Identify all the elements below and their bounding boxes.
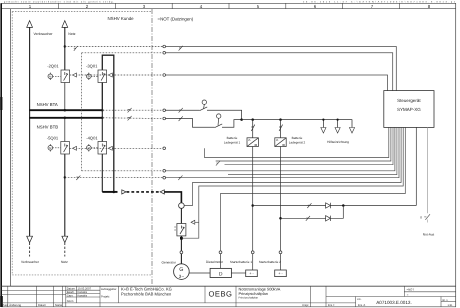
op unit Steuergeraet SYMAP box	[384, 91, 434, 128]
wire -2Q01 to busbar BTA	[64, 83, 66, 111]
motor drive M -5Q01	[48, 144, 61, 151]
svg-text:Starterbatterie 1: Starterbatterie 1	[230, 260, 252, 264]
wire generator to diesel	[189, 272, 210, 274]
charger 1 box AC/DC	[247, 138, 258, 147]
arrow hilfs2	[335, 128, 340, 134]
motor Dieselmotor box	[210, 268, 231, 277]
svg-text:NSHV BTA: NSHV BTA	[37, 102, 58, 107]
svg-text:NSHV BTB: NSHV BTB	[37, 125, 59, 130]
svg-text:Ladegerät 2: Ladegerät 2	[289, 141, 306, 145]
svg-text:Kanakis: Kanakis	[78, 294, 88, 297]
svg-text:3~: 3~	[179, 274, 185, 279]
node hilfs2	[337, 119, 339, 121]
wire -4Q01 column	[101, 110, 103, 192]
svg-text:Starterbatterie 2: Starterbatterie 2	[259, 260, 281, 264]
bundle wire L4 from terminal y170.8	[166, 127, 395, 170]
motor drive M -3Q01	[87, 73, 99, 80]
fuse mark charger2	[279, 125, 283, 131]
svg-text:Name: Name	[55, 304, 63, 307]
bundle wire L5	[228, 127, 397, 174]
svg-text:Zust.: Zust.	[2, 304, 8, 307]
column header ticks	[59, 3, 400, 8]
svg-text:Änderung: Änderung	[9, 303, 21, 307]
breaker -4Q01	[98, 142, 107, 155]
svg-text:Netz: Netz	[61, 260, 68, 264]
svg-text:Hilfseinrichtung: Hilfseinrichtung	[327, 140, 349, 144]
bundle wire L9 to diesel	[221, 127, 406, 250]
wire charger2 to battery2	[280, 147, 282, 251]
diode D2	[326, 216, 331, 221]
node changeover junction	[240, 118, 243, 121]
arrow NOT feed left	[160, 190, 164, 194]
wire dashed row y117.8 BTB link	[103, 117, 163, 120]
wire dashed stub below Verbraucher arrow	[29, 243, 31, 257]
svg-text:A071003.E.0013.: A071003.E.0013.	[376, 300, 412, 305]
contact mark L6	[178, 175, 182, 180]
wire battery1 sense row y205.5	[253, 205, 417, 207]
charger 2 box AC/DC	[275, 138, 286, 147]
busbar NSHV BTB	[29, 117, 103, 119]
arrow trip -5Q01	[73, 146, 77, 150]
contact mark line A	[179, 108, 183, 113]
arrow hilfs1	[321, 128, 326, 134]
node BTB-5Q01	[64, 117, 67, 120]
wire Verbraucher vertical	[29, 27, 31, 236]
arrow trip -2Q01	[73, 73, 77, 77]
node diode merge	[342, 204, 345, 207]
svg-text:Netz: Netz	[68, 32, 75, 36]
arrow trip -4Q01	[108, 146, 112, 150]
switch blade B	[215, 124, 223, 128]
wire row y75 to Steuergeraet	[166, 75, 388, 91]
bundle wire L8 to generator sense	[181, 127, 403, 238]
wire diesel stub	[220, 254, 222, 269]
arrow NOT feed right	[122, 190, 126, 194]
NSHV Kunde dashed enclosure	[12, 12, 152, 275]
generator G 3~	[174, 264, 190, 280]
motor drive M -4Q01	[87, 144, 99, 151]
svg-text:Auftraggeber: Auftraggeber	[101, 288, 117, 291]
svg-text:Verbraucher: Verbraucher	[34, 32, 54, 36]
wire charger2 drop upper	[280, 120, 282, 138]
svg-text:D: D	[219, 272, 223, 278]
node BTA-Netz	[64, 109, 67, 112]
area separator NSHV/NOT	[151, 9, 153, 286]
wire trip branch	[195, 221, 199, 223]
wire NOT feed to generator column	[164, 192, 181, 203]
wire Not-Aus line	[427, 127, 429, 213]
arrow feeder Verbraucher top	[27, 21, 33, 28]
svg-text:Prinzipschaltplan: Prinzipschaltplan	[239, 291, 268, 296]
bottom row labels	[2, 303, 366, 307]
svg-text:Zch.: Zch.	[357, 298, 362, 301]
breaker -5Q01	[61, 142, 70, 155]
svg-text:gemacht sowie Zuwiderhandler s: gemacht sowie Zuwiderhandler sind mit al…	[4, 0, 114, 3]
wire diesel to battery1	[231, 272, 245, 274]
node BTB-4Q01	[101, 117, 104, 120]
arrow Netz bottom	[62, 236, 68, 242]
wire charger1 drop upper	[252, 120, 254, 138]
switch blade A	[200, 107, 208, 111]
arrow trip generator breaker	[191, 220, 195, 224]
breaker generator -Q	[174, 224, 186, 236]
actuator B	[217, 114, 221, 126]
node BTA-3Q01	[101, 109, 104, 112]
current transformer generator	[179, 203, 185, 209]
breaker -2Q01	[61, 70, 70, 83]
svg-text:NSHV Kunde: NSHV Kunde	[108, 16, 135, 21]
contact mark line B	[179, 116, 183, 121]
bus NOT distribution y119.6	[242, 119, 353, 121]
svg-text:Datum: Datum	[38, 304, 47, 307]
svg-text:OEBG: OEBG	[209, 290, 233, 299]
wire battery2 stub	[280, 254, 282, 270]
node hilfs1	[322, 119, 324, 121]
svg-text:=NOT: =NOT	[407, 288, 415, 292]
svg-text:Pschornhöfe BAB München: Pschornhöfe BAB München	[121, 291, 172, 296]
changeover feed line A	[166, 110, 242, 119]
node battery1 sense	[251, 204, 254, 207]
node charger2 tap	[279, 118, 282, 121]
Hilfseinrichtung stubs	[323, 120, 352, 128]
terminal circle diesel	[219, 251, 222, 254]
motor drive M -2Q01	[48, 73, 61, 80]
pushbutton Not-Aus	[424, 214, 430, 222]
bundle wire L3	[225, 127, 394, 164]
wire dashed control riser x81.6	[81, 53, 83, 171]
node charger1 tap	[251, 118, 254, 121]
svg-text:Ladegerät 1: Ladegerät 1	[224, 141, 241, 145]
contact mark sense row 2	[306, 216, 310, 221]
svg-text:1 Bl.: 1 Bl.	[448, 304, 453, 307]
fuse mark charger1	[251, 125, 255, 131]
wire charger1 to battery1	[252, 147, 254, 251]
breaker -3Q01	[98, 70, 107, 83]
svg-text:Verbraucher: Verbraucher	[21, 260, 40, 264]
terminal circle battery2	[279, 251, 282, 254]
contact mark L2 end	[216, 161, 220, 166]
arrow trip -3Q01	[108, 73, 112, 77]
actuator A	[202, 100, 206, 108]
cable NOT feed dashed	[127, 191, 159, 193]
node -5Q01 aux tap	[64, 176, 66, 178]
svg-text:Ers. d.: Ers. d.	[358, 304, 366, 307]
svg-text:Not-Aus: Not-Aus	[423, 232, 435, 236]
wire BTB to -5Q01 to Netz bottom	[64, 118, 66, 142]
battery Starterbatterie 2	[275, 270, 287, 277]
wire dashed row y148 trip link -5Q01/-4Q01	[70, 147, 163, 149]
svg-text:Batterie: Batterie	[227, 136, 238, 140]
bundle wire L2	[216, 127, 391, 161]
column numbers	[29, 4, 431, 9]
svg-text:Batterie: Batterie	[292, 136, 303, 140]
fold mark left edge	[0, 97, 2, 110]
arrow feeder Netz top	[62, 21, 68, 28]
node battery2 sense	[279, 217, 282, 220]
wire -5Q01 down to bottom arrow	[64, 154, 66, 236]
contact mark on row y46.5 left	[74, 46, 78, 51]
terminal circles column x164	[163, 45, 166, 179]
svg-text:-4Q01: -4Q01	[86, 135, 98, 140]
arrow Verbraucher bottom	[27, 236, 33, 242]
contact mark row y46.5	[179, 46, 183, 51]
fold mark left edge 2	[0, 296, 3, 307]
wire dashed row y177.6	[65, 176, 163, 178]
wire row y52.8 to Steuergeraet	[166, 53, 393, 91]
bundle wire L6 from terminal y177.7	[166, 127, 400, 177]
node generator sense tap	[180, 237, 183, 240]
svg-text:Generator: Generator	[162, 261, 177, 265]
terminal circle battery1	[251, 251, 254, 254]
svg-text:Projekt: Projekt	[101, 295, 110, 298]
wire breaker to generator	[180, 236, 182, 264]
svg-text:=NOT (Datzingen): =NOT (Datzingen)	[158, 17, 194, 22]
node Netz interlock tap	[64, 45, 66, 47]
busbar NSHV BTA	[29, 109, 103, 111]
wire dashed interlock row y46.5 Netz to terminal	[65, 46, 163, 48]
title block texts left	[67, 287, 117, 303]
wire row y46.5 to Steuergeraet	[166, 47, 397, 91]
svg-text:SYMAP-XG: SYMAP-XG	[397, 107, 421, 112]
diode D1	[326, 203, 331, 208]
bundle wire L7 to CT tap	[184, 127, 401, 205]
title block grid	[2, 286, 456, 307]
svg-text:Norm: Norm	[67, 300, 74, 303]
wire dashed row y170.8	[82, 170, 163, 172]
svg-text:G: G	[179, 267, 183, 273]
wire gooseneck riser -3Q01 over to NOT bus	[102, 55, 114, 192]
svg-text:Ers. f.: Ers. f.	[328, 304, 335, 307]
svg-text:Urspr.: Urspr.	[302, 304, 309, 307]
svg-text:Bl. 1: Bl. 1	[443, 299, 449, 302]
svg-text:-5Q01: -5Q01	[47, 135, 59, 140]
arrow hilfs3	[349, 128, 354, 134]
contact mark row y110.2	[128, 108, 132, 113]
svg-text:Gepr.: Gepr.	[67, 294, 74, 297]
wire dashed row y110.2 BTA link	[103, 109, 163, 111]
wire sense merge riser to Steuergeraet	[415, 127, 417, 205]
svg-text:Steuergerät: Steuergerät	[397, 98, 421, 103]
bundle wire L1	[205, 127, 389, 157]
wire dashed row y75 trip link -2Q01/-3Q01	[70, 74, 163, 76]
contact mark sense row 1	[307, 203, 311, 208]
svg-text:-3Q01: -3Q01	[86, 63, 98, 68]
contact mark row y177.6	[76, 176, 80, 180]
changeover feed line B	[166, 119, 242, 128]
node NOT feed	[113, 191, 116, 194]
wire CT to breaker	[180, 208, 182, 223]
busbar NOT feed bottom	[102, 191, 117, 193]
wire battery1 stub	[252, 254, 254, 270]
svg-text:-2Q01: -2Q01	[47, 63, 59, 68]
terminal circle generator	[180, 251, 183, 254]
svg-text:Prinzipschaltplan: Prinzipschaltplan	[239, 296, 259, 299]
wire Netz vertical upper	[64, 27, 66, 70]
wire dashed row y52.8	[82, 52, 163, 54]
battery Starterbatterie 1	[246, 270, 258, 277]
wire battery2 sense row y218.3	[281, 206, 344, 219]
contact mark row y117.8	[128, 116, 132, 121]
wire dashed stub below Netz arrow	[64, 243, 66, 257]
svg-text:Dieselmotor: Dieselmotor	[206, 260, 224, 264]
